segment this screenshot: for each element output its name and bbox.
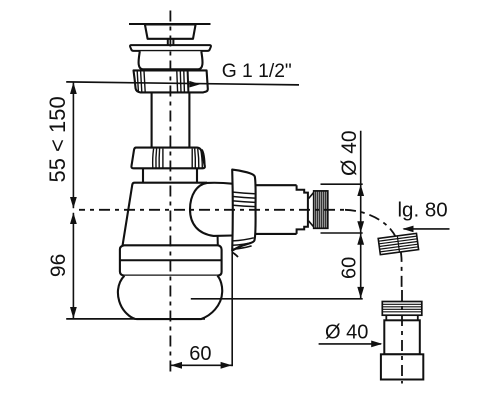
svg-text:55 < 150: 55 < 150: [45, 96, 70, 182]
body cone: [123, 183, 207, 246]
right dim: extension lines: [321, 183, 363, 185]
lg. 80 leader: [404, 228, 450, 230]
sink line: [129, 23, 211, 25]
upper locknut knurl lines: [137, 71, 184, 92]
tailpipe: [152, 92, 190, 147]
trap inlet nut: [131, 148, 204, 169]
ring mid line: [120, 259, 222, 261]
svg-text:60: 60: [338, 257, 360, 279]
plug stem: [168, 39, 174, 45]
trap nut knurl lines: [153, 149, 163, 168]
bottom extension line: [66, 318, 205, 320]
elbow stub: [217, 236, 219, 245]
svg-text:Ø 40: Ø 40: [325, 321, 368, 343]
bottom Ø 40 leader: [319, 343, 381, 345]
G leader arrowhead: [189, 81, 200, 88]
waste bowl: [139, 51, 203, 69]
left dim line 55<150 / 96: [72, 83, 74, 209]
bottom fitting: cylinder: [384, 320, 420, 354]
lower cup: [118, 276, 222, 319]
vertical centerline: [169, 11, 171, 374]
compression nut (outlet): [232, 170, 255, 251]
horizontal centerline: [79, 209, 345, 211]
hose corrugated block: [378, 233, 418, 254]
outlet pipe: [256, 185, 297, 234]
waste flange: [130, 45, 211, 51]
pipe end chamfers: [309, 192, 314, 227]
trap neck: [143, 168, 197, 182]
hose centerline curve: [345, 210, 402, 290]
svg-text:60: 60: [189, 343, 211, 365]
top extension + G leader line: [66, 82, 299, 85]
compression nut ribs: [233, 192, 255, 207]
svg-text:Ø 40: Ø 40: [338, 130, 361, 176]
bottom fitting centerline: [401, 290, 403, 384]
svg-text:lg. 80: lg. 80: [398, 199, 448, 222]
threaded end block: [314, 191, 328, 228]
bottom fitting: sleeve: [381, 354, 423, 379]
joint ring: [120, 245, 222, 275]
drain plug cap: [145, 24, 196, 38]
pipe end steps: [297, 185, 308, 234]
right dim line: [360, 131, 362, 299]
bottom 60 dim line: [170, 364, 232, 366]
bottom fitting: neck: [386, 315, 418, 320]
right dim arrowheads: [357, 185, 364, 299]
upper locknut G 1 1/2: [134, 70, 208, 92]
svg-text:96: 96: [47, 254, 70, 277]
elbow: [190, 183, 232, 236]
left dim arrowheads: [70, 82, 77, 318]
svg-text:G 1 1/2": G 1 1/2": [222, 61, 292, 82]
compression nut bottom tail: [232, 252, 238, 257]
bottom 60 dim: extension: [231, 251, 233, 367]
bottom fitting: threaded block: [382, 302, 422, 316]
